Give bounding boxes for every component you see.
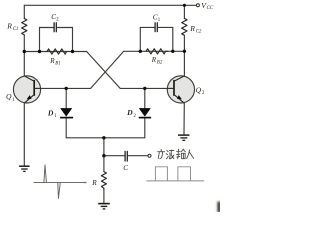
wire diode common line [66, 137, 145, 139]
node capacitor tap [102, 154, 105, 157]
wire Q1 collector lead [24, 52, 34, 82]
node D1 base tap [65, 87, 68, 90]
svg-text:R: R [189, 24, 195, 33]
node C1 left [139, 50, 142, 53]
svg-text:R: R [6, 22, 12, 31]
wire top rail [24, 4, 196, 6]
svg-text:D: D [47, 109, 54, 118]
wire C1 top lead right [158, 26, 173, 28]
label square-wave input (方波输入) hand-drawn [158, 149, 194, 159]
waveform square wave [146, 167, 204, 181]
resistor RB1 [47, 49, 67, 54]
diode D1 [60, 108, 73, 117]
node D2 base tap [143, 87, 146, 90]
wire RC2 branch upper [183, 5, 185, 18]
svg-text:1: 1 [54, 114, 57, 119]
wire left horizontal collector line [24, 51, 86, 53]
wire right horizontal collector line [124, 50, 185, 52]
node Q2 collector [183, 50, 186, 53]
label RB1 [49, 57, 60, 67]
svg-text:C2: C2 [196, 29, 202, 34]
wire left collector branch upper [23, 5, 25, 18]
入 [187, 150, 194, 159]
wire C2 top lead right [57, 27, 72, 29]
wire Q2 collector lead [174, 51, 184, 81]
ground (under Q1) [19, 166, 30, 171]
wire RC1 to collector node [23, 35, 25, 52]
波 [166, 150, 174, 159]
node C2 left [38, 50, 41, 53]
label C2 [51, 13, 59, 22]
wire RC2 to collector node [183, 35, 185, 51]
wire D2 cathode [144, 118, 146, 138]
label RC2 [189, 24, 202, 35]
node C2 right [71, 50, 74, 53]
resistor RC2 [182, 18, 187, 35]
方 [158, 149, 165, 158]
wire Q2 base line [120, 87, 167, 89]
svg-text:C1: C1 [13, 27, 19, 32]
label C1 [153, 13, 161, 22]
capacitor C2 plates [54, 23, 56, 32]
wire D1 cathode [65, 118, 67, 138]
resistor R [101, 172, 106, 190]
terminal VCC [196, 4, 199, 7]
resistor RB2 [146, 49, 168, 54]
svg-text:R: R [151, 56, 157, 64]
capacitor C1 box left vertical [139, 27, 141, 51]
wire capacitor C right lead [128, 155, 148, 157]
wire C1 top lead left [140, 26, 154, 28]
svg-text:R: R [49, 57, 55, 65]
svg-text:1: 1 [158, 18, 161, 23]
svg-text:1: 1 [12, 98, 15, 103]
svg-text:2: 2 [134, 114, 137, 119]
label RC1 [6, 22, 18, 33]
svg-text:2: 2 [202, 91, 205, 96]
node C1 right [171, 50, 174, 53]
wire trigger vertical upper [103, 138, 105, 156]
label VCC [201, 1, 214, 11]
svg-text:B1: B1 [55, 61, 60, 66]
wire trigger vertical to R [103, 156, 105, 172]
wire Q1 base line [41, 87, 91, 89]
svg-text:Q: Q [196, 86, 202, 95]
svg-text:C: C [123, 164, 128, 172]
label RB2 [151, 56, 163, 66]
node VCC rail junction [183, 4, 186, 7]
wire D1 anode [65, 88, 67, 108]
waveform spike (differentiated pulse) [34, 165, 87, 199]
label D1 [47, 109, 57, 120]
svg-text:B2: B2 [157, 60, 163, 65]
wire Q2 emitter lead [174, 95, 184, 135]
输 [177, 149, 186, 159]
wire diagonal A (Q1 collector to Q2 base) [87, 52, 121, 89]
transistor Q2 [167, 76, 194, 103]
wire R to ground [103, 190, 105, 203]
capacitor C1 plates [155, 23, 157, 32]
label C [123, 164, 128, 172]
label R [91, 179, 97, 187]
capacitor C2 box right vertical [72, 28, 74, 52]
diode D2 [139, 108, 151, 117]
wire C2 top lead left [40, 27, 54, 29]
wire capacitor C left lead [104, 155, 124, 157]
ground (under R) [98, 204, 110, 209]
capacitor C2 box left vertical [39, 28, 41, 52]
label Q2 [196, 86, 205, 97]
terminal trigger input [148, 154, 151, 157]
transistor Q1 [13, 76, 40, 103]
wire D2 anode [144, 88, 146, 108]
wire diagonal B (Q2 collector to Q1 base) [91, 51, 124, 88]
capacitor C1 box right vertical [172, 27, 174, 51]
resistor RC1 [22, 19, 27, 35]
edge artifact bottom-right [217, 202, 220, 213]
svg-text:D: D [126, 108, 133, 117]
label D2 [126, 108, 136, 119]
svg-text:2: 2 [56, 18, 59, 23]
node diode line center [102, 136, 105, 139]
svg-text:Q: Q [6, 92, 12, 101]
ground (under Q2) [178, 135, 189, 140]
label Q1 [6, 92, 15, 103]
capacitor C plates [125, 151, 127, 161]
node Q1 collector [23, 50, 26, 53]
wire Q1 emitter lead [24, 95, 34, 166]
svg-text:R: R [91, 179, 97, 187]
svg-text:CC: CC [207, 6, 214, 11]
